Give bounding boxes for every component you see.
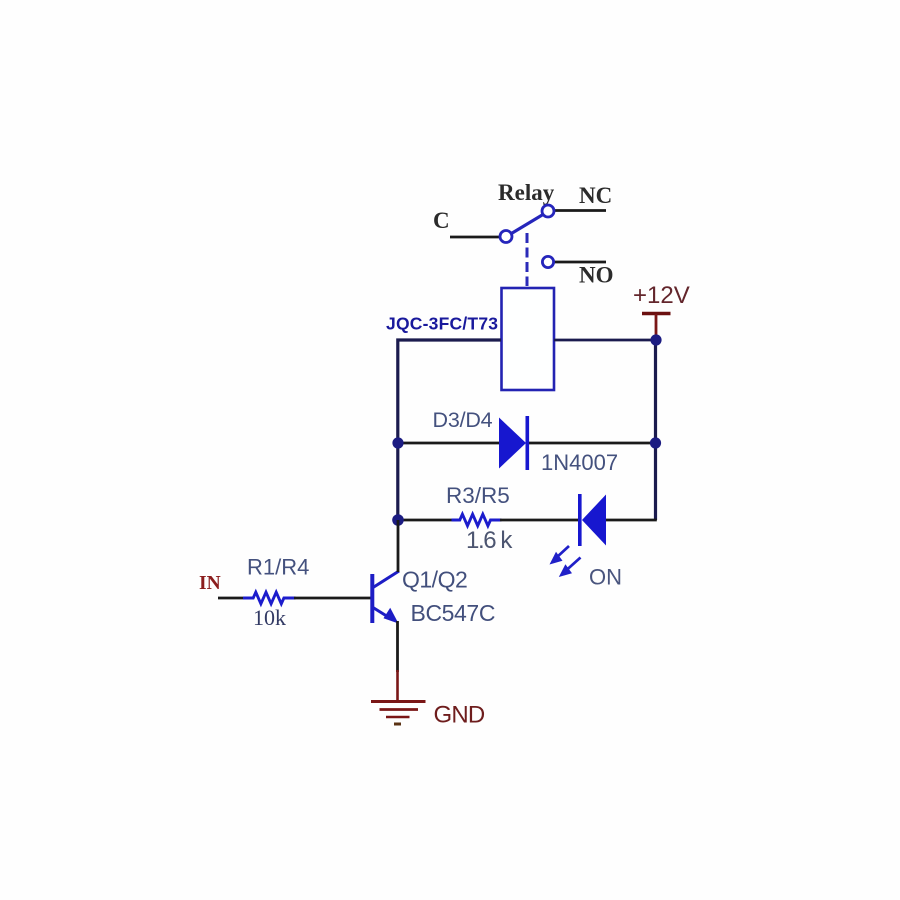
transistor collector stroke <box>373 571 399 588</box>
node collector <box>392 514 404 526</box>
ground bar 2 <box>380 708 419 711</box>
LED light arrow 2 <box>559 558 581 578</box>
node D3 right <box>650 437 661 448</box>
svg-text:D3/D4: D3/D4 <box>433 408 493 432</box>
wire R3 row left <box>398 519 453 522</box>
ground bar 3 <box>386 716 410 719</box>
svg-text:IN: IN <box>199 573 221 594</box>
wire emitter to ground red <box>396 670 399 701</box>
svg-text:1.6 k: 1.6 k <box>466 527 513 554</box>
resistor R3/R5 zigzag <box>452 514 502 526</box>
ground bar 1 <box>371 700 426 703</box>
+12V lead wire <box>655 314 658 339</box>
svg-text:BC547C: BC547C <box>411 600 496 626</box>
svg-text:GND: GND <box>434 702 485 729</box>
node D3 left <box>392 437 403 448</box>
svg-text:JQC-3FC/T73: JQC-3FC/T73 <box>386 314 498 334</box>
relay switch NC contact circle <box>542 205 554 217</box>
wire collector <box>397 520 400 572</box>
svg-text:10k: 10k <box>253 605 286 630</box>
relay coil box K1 <box>502 288 555 390</box>
svg-text:NO: NO <box>579 263 614 288</box>
+12V power bar <box>642 312 671 316</box>
wire NO lead <box>553 261 606 264</box>
transistor emitter stroke <box>373 608 393 621</box>
diode D3/D4 triangle <box>499 418 526 469</box>
relay switch arm <box>512 215 543 234</box>
relay switch common contact circle <box>500 231 512 243</box>
wire LED to rail <box>606 519 657 522</box>
wire base <box>294 597 371 600</box>
wire NC lead <box>554 209 606 212</box>
svg-text:+12V: +12V <box>633 282 690 309</box>
wire right rail <box>654 340 657 520</box>
svg-text:NC: NC <box>579 183 612 208</box>
wire C lead <box>450 236 501 239</box>
node at +12V rail <box>650 334 661 345</box>
wire coil right <box>554 339 656 342</box>
wire coil left <box>398 340 501 520</box>
svg-text:1N4007: 1N4007 <box>541 450 618 475</box>
resistor R1/R4 zigzag <box>243 592 296 604</box>
svg-text:ON: ON <box>589 565 622 590</box>
ground bar 4 <box>394 723 401 726</box>
svg-text:C: C <box>433 208 450 233</box>
wire D3 row left <box>398 442 500 445</box>
svg-text:Q1/Q2: Q1/Q2 <box>402 567 467 593</box>
svg-text:Relay: Relay <box>498 180 555 205</box>
diode D3/D4 cathode bar <box>526 416 530 470</box>
svg-text:R1/R4: R1/R4 <box>247 555 309 580</box>
relay switch NO contact circle <box>542 256 553 267</box>
svg-text:R3/R5: R3/R5 <box>446 483 510 508</box>
transistor Q1/Q2 base bar <box>370 574 374 623</box>
transistor emitter arrowhead <box>384 608 399 624</box>
wire R3 row middle <box>500 519 579 522</box>
wire emitter <box>396 621 399 672</box>
LED cathode bar <box>578 494 582 546</box>
wire input lead <box>218 597 245 600</box>
LED triangle <box>582 495 606 546</box>
wire D3 row right <box>528 442 654 445</box>
LED light arrow 1 <box>550 546 570 565</box>
relay actuation dashed link <box>526 233 529 286</box>
